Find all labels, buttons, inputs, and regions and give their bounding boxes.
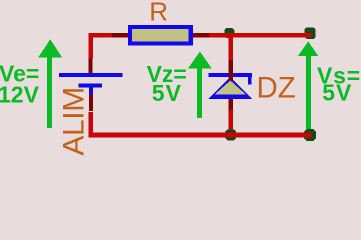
node dot: top right terminal (305, 27, 316, 39)
wire: vertical from top node down to zener top pin (228, 38, 233, 60)
wire: top horizontal from bend to resistor left pin (88, 33, 112, 38)
resistor R body outline (128, 25, 193, 46)
svg-text:5V: 5V (322, 80, 352, 106)
zener diode DZ: anode triangle fill (215, 81, 246, 95)
pin: zener anode lead (bottom, under triangle) (229, 97, 233, 110)
battery negative stub (89, 88, 93, 95)
node dot: bottom zener junction (225, 129, 236, 140)
wire: top horizontal from resistor right pin to top-right node (209, 33, 311, 38)
node dot: bottom right terminal (304, 129, 316, 141)
arrow Vz (green, up) (188, 52, 212, 119)
svg-text:12V: 12V (0, 81, 40, 107)
battery ALIM positive plate (long) (59, 73, 123, 77)
resistor R body fill (132, 29, 189, 41)
svg-text:DZ: DZ (257, 71, 296, 104)
pin: zener cathode lead (top, drawn over bar and apex) (229, 60, 233, 81)
wire: vertical from zener bottom pin down to bottom rail (228, 110, 233, 134)
pin: battery top lead (89, 58, 93, 74)
zener diode DZ: anode triangle outline (209, 77, 252, 99)
pin: resistor left lead (112, 33, 128, 37)
pin: battery bottom lead (89, 94, 93, 111)
arrow Ve (green, up) (38, 39, 62, 128)
node dot: top zener junction (224, 28, 234, 38)
svg-text:5V: 5V (152, 80, 182, 106)
pin: resistor right lead (193, 33, 210, 37)
battery ALIM negative plate (short) (79, 84, 103, 88)
zener diode DZ: cathode bar (208, 73, 252, 77)
svg-text:ALIM: ALIM (57, 87, 90, 155)
svg-text:R: R (149, 0, 168, 27)
arrow Vs (green, up) (298, 41, 318, 129)
wire: bottom-left vertical from battery bottom to rail (88, 112, 93, 135)
wire: top-left vertical from battery up to bend (88, 33, 93, 58)
wire: bottom rail horizontal (88, 133, 311, 138)
zener diode DZ: cathode right bent tab (248, 77, 252, 84)
